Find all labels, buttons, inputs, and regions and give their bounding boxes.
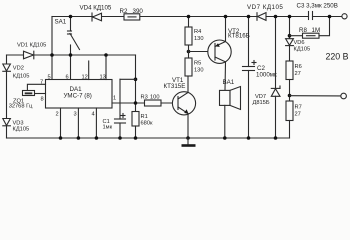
node R4 rail junction [187, 15, 191, 19]
pin 4 stub [95, 108, 97, 138]
svg-text:КТ315Е: КТ315Е [164, 83, 186, 90]
svg-text:С3 3,3мк 250В: С3 3,3мк 250В [297, 3, 338, 10]
resistor R4 [185, 27, 204, 45]
node pin3 rail junction [77, 136, 81, 140]
wire R6 to node [289, 80, 291, 102]
svg-text:R2: R2 [120, 8, 128, 15]
wire C1 column upper [119, 79, 121, 119]
wire base link to VT2 [189, 51, 215, 53]
node VT1 emitter rail junction [186, 136, 190, 140]
wire pin5 column [51, 17, 53, 80]
svg-text:R6: R6 [295, 64, 302, 70]
svg-text:390: 390 [133, 8, 144, 15]
wire VT2 emitter to rail [225, 17, 227, 42]
node zener bottom rail junction [274, 136, 278, 140]
wire R7 bottom to rail [289, 121, 291, 139]
svg-text:R7: R7 [295, 105, 302, 111]
svg-text:8: 8 [41, 97, 44, 103]
resistor R6 [286, 61, 302, 80]
node C2 bottom rail junction [247, 136, 251, 140]
diode VD1 [17, 43, 46, 59]
svg-text:VD1 КД105: VD1 КД105 [17, 43, 46, 49]
svg-text:1000мк: 1000мк [256, 72, 277, 79]
wire pin6 stub [70, 55, 72, 80]
svg-text:2: 2 [56, 112, 59, 118]
node C1 rail junction [118, 136, 122, 140]
svg-text:130: 130 [194, 68, 204, 74]
svg-text:BA1: BA1 [223, 79, 235, 86]
terminal bottom circle [341, 93, 347, 99]
node R8 rail junction [328, 15, 332, 19]
resistor R5 [185, 58, 204, 76]
svg-text:6: 6 [66, 75, 69, 81]
wire pin1 to R3 [112, 102, 146, 104]
wire pin7 to crystal [27, 84, 45, 90]
wire Vss riser x=135.5 [135, 55, 137, 112]
svg-text:1мк: 1мк [103, 125, 113, 131]
wire top rail right segment after C3 [313, 16, 343, 18]
svg-text:12: 12 [82, 75, 88, 81]
node R1 pin1 junction [134, 101, 138, 105]
resistor R8 [299, 27, 320, 38]
svg-text:КД105: КД105 [294, 47, 311, 53]
diode VD3 [3, 119, 29, 133]
zener VD7 Д815Б [253, 17, 281, 139]
wire R8 left lead [290, 35, 303, 37]
resistor R1 [132, 112, 153, 127]
terminal top circle [342, 14, 347, 19]
svg-text:VD2: VD2 [13, 66, 24, 72]
pin 2 stub [60, 108, 62, 138]
svg-text:1: 1 [113, 96, 116, 102]
node output mid junction [288, 94, 292, 98]
svg-text:R4: R4 [194, 29, 201, 35]
wire R8 right lead riser [319, 17, 330, 36]
diode VD6 [286, 39, 311, 53]
svg-text:27: 27 [295, 71, 301, 77]
svg-text:R8: R8 [299, 27, 307, 34]
wire pin13 stub [105, 55, 107, 80]
wire R3 to VT1 base [161, 102, 177, 104]
wire mid terminal [290, 95, 341, 97]
diode VD2 [3, 64, 30, 80]
svg-text:13: 13 [100, 75, 106, 81]
node right column rail junction [288, 15, 292, 19]
svg-text:КД105: КД105 [13, 74, 30, 80]
svg-text:SA1: SA1 [55, 19, 67, 26]
node SA1 top rail junction [69, 15, 73, 19]
svg-text:R3: R3 [141, 95, 148, 101]
resistor R3 [141, 95, 162, 107]
wire speaker bottom lead [224, 105, 226, 138]
wire R4-R5 link [188, 45, 190, 58]
svg-text:R5: R5 [194, 61, 201, 67]
speaker BA1 [220, 79, 241, 110]
node zener top rail junction [274, 15, 278, 19]
svg-text:4: 4 [92, 112, 95, 118]
node R4 R5 junction [187, 50, 191, 54]
capacitor C3 [297, 3, 338, 20]
switch SA1 [55, 17, 80, 56]
resistor R2 [120, 8, 144, 20]
transistor VT1 [164, 77, 196, 115]
wire VT1 collector to R5 [187, 76, 189, 93]
wire C1 column lower [119, 123, 121, 138]
wire R1 bottom lead [135, 126, 137, 138]
svg-text:220 В: 220 В [326, 52, 349, 62]
wire VT2 collector down [224, 62, 227, 91]
diode VD7 top [247, 4, 283, 20]
pin 3 stub [77, 108, 79, 138]
node R1 rail junction [134, 136, 138, 140]
wire VT1 emitter to rail [187, 114, 189, 139]
svg-text:VD4 КД105: VD4 КД105 [80, 5, 112, 12]
node R8 tap [288, 34, 292, 38]
svg-text:3: 3 [74, 112, 77, 118]
node speaker rail junction [223, 136, 227, 140]
wire bottom rail [7, 137, 290, 139]
svg-text:VD7 КД105: VD7 КД105 [247, 4, 283, 11]
svg-text:32768 Гц: 32768 Гц [9, 104, 33, 110]
svg-text:КТ816Б: КТ816Б [228, 33, 250, 40]
svg-text:УМС-7 (8): УМС-7 (8) [64, 93, 92, 100]
wire right column top [289, 17, 291, 39]
svg-text:R1: R1 [141, 114, 148, 120]
capacitor C2 [243, 17, 278, 79]
svg-text:КД105: КД105 [13, 127, 30, 133]
svg-text:VD6: VD6 [294, 40, 305, 46]
pin 12 stub floating [88, 61, 90, 80]
wire top rail left segment [52, 16, 309, 18]
ground [182, 138, 196, 147]
node pin2 rail junction [59, 136, 63, 140]
crystal ZQ1 [9, 91, 35, 110]
wire R4 top lead [188, 17, 190, 28]
svg-text:130: 130 [194, 36, 204, 42]
resistor R7 [286, 101, 302, 121]
transistor VT2 [208, 28, 250, 63]
node VT2 emitter rail junction [224, 15, 228, 19]
wire C1 tap horizontal [120, 78, 136, 80]
svg-text:680к: 680к [141, 121, 153, 127]
IC DA1 УМС-7 [46, 80, 113, 109]
node pin13 bus junction [104, 53, 108, 57]
svg-text:Д815Б: Д815Б [253, 100, 270, 106]
capacitor C1 [103, 114, 126, 131]
svg-text:27: 27 [295, 112, 301, 118]
wire left column x=6.5 [6, 55, 8, 138]
wire VD6 to R6 [289, 46, 291, 61]
node C2 rail junction [247, 15, 251, 19]
wire pin8 to crystal [35, 93, 46, 95]
svg-text:100: 100 [150, 95, 160, 101]
node SA1 bus junction [69, 53, 73, 57]
node C1 tap [134, 78, 138, 82]
svg-text:1М: 1М [312, 27, 321, 34]
svg-text:5: 5 [48, 75, 51, 81]
diode VD4 [80, 5, 112, 22]
wire C2 bottom lead [248, 71, 250, 139]
node pin4 rail junction [95, 136, 99, 140]
wire bus VD1/pins row y=55 [7, 54, 136, 56]
node pin5 bus junction [50, 53, 54, 57]
